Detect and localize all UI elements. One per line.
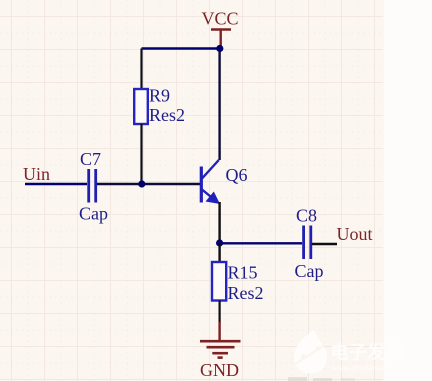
resistor R15 — [212, 262, 226, 301]
wire top horizontal — [142, 47, 221, 49]
svg-text:Res2: Res2 — [149, 105, 185, 125]
svg-text:VCC: VCC — [202, 9, 239, 29]
resistor R9 pin bottom — [140, 124, 142, 184]
svg-text:Cap: Cap — [295, 261, 324, 281]
node VCC junction — [216, 45, 223, 52]
resistor R9 pin top — [140, 49, 142, 90]
svg-text:www.elecfans.c: www.elecfans.c — [332, 363, 387, 373]
capacitor C8 — [304, 226, 311, 260]
svg-text:Cap: Cap — [79, 204, 108, 224]
svg-text:Q6: Q6 — [226, 165, 248, 185]
svg-text:C8: C8 — [296, 206, 317, 226]
node base junction — [138, 180, 145, 187]
svg-text:R15: R15 — [228, 263, 258, 283]
wire junction to R15 — [218, 243, 220, 262]
wire C8 to Uout — [312, 243, 337, 245]
capacitor C7 — [89, 169, 96, 203]
transistor Q6 — [201, 160, 219, 203]
svg-text:R9: R9 — [149, 86, 170, 106]
resistor R15 pin bottom — [219, 301, 221, 324]
wire emitter vertical — [218, 202, 220, 243]
svg-text:C7: C7 — [80, 149, 101, 169]
transistor Q6 emitter arrow — [206, 192, 221, 205]
ground — [200, 322, 241, 358]
watermark logo line — [295, 346, 325, 365]
wire emitter to C8 — [220, 242, 302, 244]
wire C7 to base junction — [97, 183, 200, 185]
watermark bottom marks — [288, 377, 355, 381]
wire Uin to C7 — [25, 183, 87, 185]
svg-text:GND: GND — [200, 360, 239, 380]
svg-text:电子发烧: 电子发烧 — [331, 342, 404, 363]
resistor R9 — [134, 89, 148, 124]
svg-text:Res2: Res2 — [228, 283, 264, 303]
watermark logo — [294, 330, 327, 374]
wire collector vertical — [218, 49, 220, 161]
plain right margin — [384, 0, 432, 381]
svg-text:Uin: Uin — [23, 164, 50, 184]
svg-text:Uout: Uout — [337, 224, 373, 244]
node emitter junction — [216, 239, 223, 246]
power symbol VCC — [211, 30, 231, 48]
